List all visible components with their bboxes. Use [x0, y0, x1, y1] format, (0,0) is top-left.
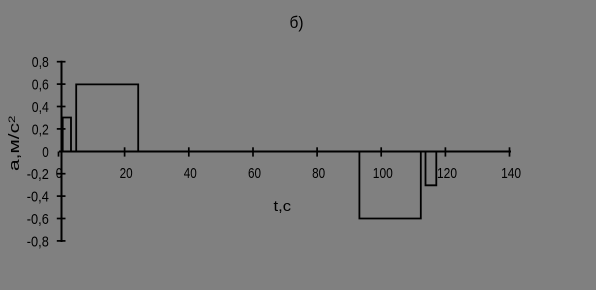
svg-text:б): б) [290, 14, 304, 32]
svg-text:-0,4: -0,4 [27, 189, 49, 206]
svg-text:0: 0 [56, 165, 63, 182]
svg-text:0: 0 [42, 144, 49, 161]
svg-text:-0,8: -0,8 [27, 233, 49, 250]
svg-text:60: 60 [248, 165, 261, 182]
y labels [27, 54, 49, 250]
svg-text:0,8: 0,8 [32, 54, 49, 71]
svg-text:t,с: t,с [274, 198, 292, 215]
svg-text:-0,2: -0,2 [27, 166, 49, 183]
svg-text:0,2: 0,2 [32, 121, 49, 138]
svg-text:-0,6: -0,6 [27, 211, 49, 228]
svg-text:80: 80 [312, 165, 325, 182]
x axis line [59, 151, 511, 153]
svg-text:а,м/с2: а,м/с2 [6, 116, 23, 172]
curve: positive rectangle 0.6 [76, 84, 138, 151]
svg-text:20: 20 [120, 165, 133, 182]
svg-text:140: 140 [501, 165, 521, 182]
svg-text:0,6: 0,6 [32, 77, 49, 94]
svg-text:100: 100 [373, 165, 393, 182]
svg-text:0,4: 0,4 [32, 99, 49, 116]
svg-text:40: 40 [184, 165, 197, 182]
curve: negative pulse -0.3 [426, 152, 437, 185]
y axis ticks [57, 62, 66, 241]
y axis line [61, 61, 63, 242]
x axis ticks [59, 147, 510, 156]
curve: positive pulse 0.3 [63, 118, 71, 152]
svg-text:120: 120 [437, 165, 457, 182]
curve: negative rectangle -0.6 [359, 152, 420, 219]
x labels [56, 165, 521, 182]
